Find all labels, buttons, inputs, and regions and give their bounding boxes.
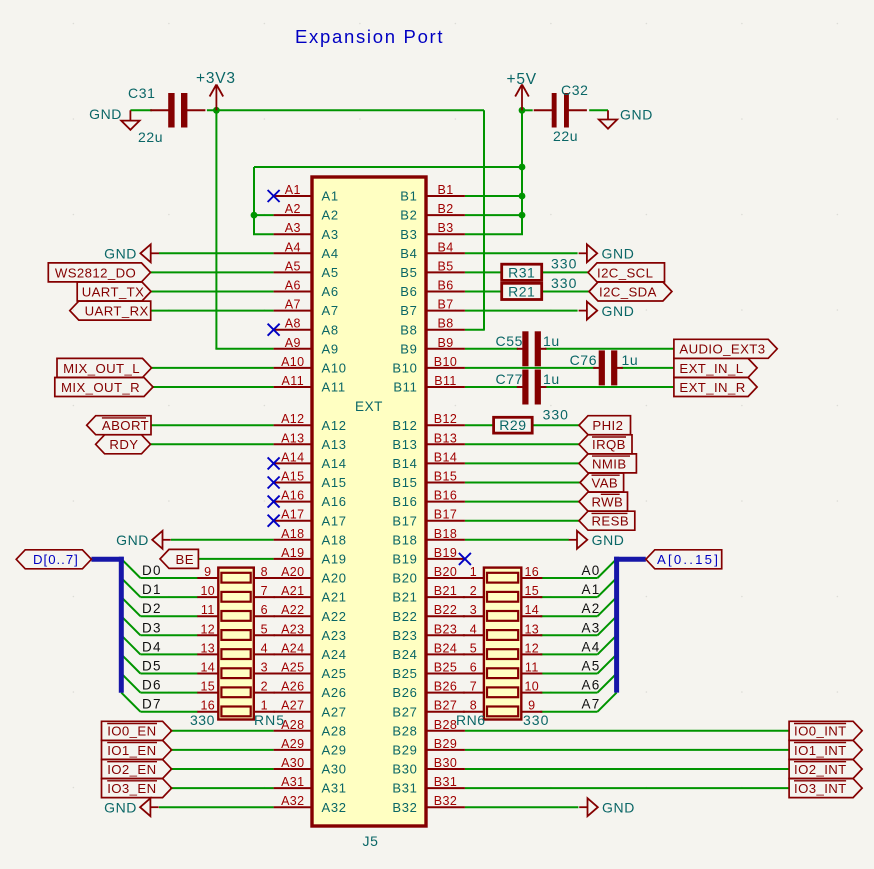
pin 4 [463,634,484,636]
wire R31 to I2C_SCL [542,271,589,273]
svg-text:A26: A26 [322,685,347,700]
svg-text:2: 2 [470,584,477,598]
resistor element 10/7 [221,592,250,602]
svg-text:D4: D4 [142,639,162,654]
svg-text:A29: A29 [281,737,304,751]
svg-text:GND: GND [104,799,137,815]
global label AUDIO_EXT3 [674,339,777,358]
global label IO2_INT [789,760,862,779]
wire B7 to GND [465,310,578,312]
pin B11 [393,374,465,395]
svg-text:1u: 1u [543,333,560,349]
resistor element 14/3 [221,668,250,678]
wire B9 to C55 [465,348,518,350]
pin A19 [274,546,347,567]
resistor element 5/12 [487,649,518,659]
svg-text:14: 14 [524,603,539,617]
wire B8 stub [465,329,485,331]
svg-text:B28: B28 [392,723,417,738]
wire A13 RDY [151,443,274,445]
svg-text:B14: B14 [434,450,457,464]
svg-text:A2: A2 [285,202,301,216]
pin 15 [521,596,542,598]
svg-text:15: 15 [200,680,215,694]
svg-text:1: 1 [470,565,477,579]
svg-text:15: 15 [524,584,539,598]
no-connect A14 [268,457,280,469]
svg-text:330: 330 [551,256,577,272]
wire +3V3 vertical drop to B8 [483,110,485,329]
global label IO2_EN [102,760,172,779]
global label ABORT [87,416,151,435]
svg-text:A1: A1 [285,183,301,197]
svg-text:A14: A14 [322,456,347,471]
bus entry D0 [121,559,140,578]
svg-text:IO3_INT: IO3_INT [794,781,847,796]
pin 9 [521,711,542,713]
svg-text:B11: B11 [393,380,417,395]
svg-text:B9: B9 [437,336,453,350]
svg-text:I2C_SCL: I2C_SCL [597,265,653,280]
svg-text:EXT: EXT [355,399,383,414]
resistor network RN6 [456,565,549,728]
resistor element 1/16 [487,573,518,583]
wire D7 to RN5 [140,711,197,713]
svg-text:A3: A3 [582,620,601,635]
no-connect A15 [268,477,280,489]
svg-text:A28: A28 [281,718,304,732]
pin B9 [400,336,465,357]
resistor element 9/8 [221,573,250,583]
wire B12 to R29 [465,424,494,426]
svg-text:GND: GND [89,106,122,122]
svg-text:A[0..15]: A[0..15] [657,552,720,567]
svg-text:B25: B25 [392,666,417,681]
no-connect A1 [268,190,280,202]
connector J5 (EXT) body [312,177,426,826]
svg-text:NMIB: NMIB [592,456,627,471]
pin B27 [392,699,465,720]
svg-text:A24: A24 [281,641,304,655]
svg-text:B16: B16 [392,494,417,509]
svg-text:A6: A6 [322,284,339,299]
svg-text:BE: BE [176,552,194,567]
svg-text:330: 330 [190,712,215,728]
resistor element 11/6 [221,611,250,621]
wire B32 to GND [465,806,579,808]
wire RN6 to A7 label [540,711,597,713]
pin A4 [274,240,339,261]
svg-text:B32: B32 [392,800,417,815]
svg-text:A4: A4 [285,240,301,254]
wire A11 MIX_OUT_R [153,386,274,388]
power symbol +3V3 [196,70,236,110]
wire A18 to GND [171,539,274,541]
global label RDY [96,435,151,454]
wire A32 to GND [159,806,274,808]
svg-text:11: 11 [525,661,539,675]
pin A30 [274,756,347,777]
wire GND to C31 [130,109,152,111]
svg-text:B31: B31 [392,781,417,796]
svg-text:B29: B29 [392,743,417,758]
resistor element 12/5 [221,630,250,640]
pin A18 [274,527,347,548]
global label MIX_OUT_L [57,358,152,377]
power symbol GND at A4 [104,244,159,262]
global label UART_TX [77,282,151,301]
svg-text:GND: GND [104,246,137,262]
pin A23 [274,622,347,643]
svg-text:A30: A30 [281,756,304,770]
bus entry D4 [121,635,140,654]
pin A32 [274,794,347,815]
pin B6 [400,279,465,300]
capacitor C31 [128,85,205,145]
wire A10 MIX_OUT_L [151,367,274,369]
wire B17 RESB [465,520,580,522]
svg-text:GND: GND [602,303,635,319]
svg-text:C32: C32 [561,82,588,98]
svg-text:B27: B27 [392,704,417,719]
wire A5 WS2812_DO [150,271,274,273]
wire A6 UART_TX [151,291,274,293]
wire B10 to C76 [465,367,596,369]
resistor network RN5 [190,565,285,728]
pin B22 [392,603,465,624]
svg-text:D[0..7]: D[0..7] [33,552,79,567]
pin B1 [400,183,465,204]
power symbol GND at B4 [579,244,635,262]
wire D3 to RN5 [140,634,197,636]
svg-text:A8: A8 [322,322,339,337]
svg-text:B21: B21 [392,590,417,605]
svg-text:+3V3: +3V3 [196,70,236,87]
bus entry A5 [598,654,617,673]
svg-text:A15: A15 [322,475,347,490]
global label PHI2 [579,416,631,435]
svg-text:B24: B24 [434,641,457,655]
svg-text:A7: A7 [322,303,339,318]
wire B29 to IO1_INT [465,749,789,751]
svg-text:A15: A15 [281,470,304,484]
pin 8 [254,577,275,579]
svg-text:B20: B20 [392,571,417,586]
junction node B2 [519,212,526,219]
svg-text:9: 9 [528,699,535,713]
global label MIX_OUT_R [55,378,153,397]
pin 7 [254,596,275,598]
pin 3 [254,673,275,675]
svg-text:RESB: RESB [592,514,630,529]
pin B8 [400,317,465,338]
pin A27 [274,699,347,720]
svg-text:B10: B10 [434,355,457,369]
svg-text:A10: A10 [281,355,304,369]
svg-text:A25: A25 [322,666,347,681]
resistor R31 [502,264,542,280]
resistor element 6/11 [487,668,518,678]
svg-text:B7: B7 [400,303,417,318]
svg-text:2: 2 [261,680,268,694]
pin 9 [197,577,218,579]
wire +3V3 vertical drop to A9 [215,110,217,348]
pin 11 [521,673,542,675]
svg-text:330: 330 [543,407,569,423]
svg-text:A6: A6 [285,279,301,293]
wire RN6 to A6 label [540,692,597,694]
wire D0 to RN5 [140,577,197,579]
svg-text:D6: D6 [142,678,162,693]
svg-text:A32: A32 [322,800,347,815]
wire IO1_EN to A29 [170,749,274,751]
wire R29 to PHI2 [532,424,579,426]
svg-text:A16: A16 [322,494,347,509]
svg-text:A8: A8 [285,317,301,331]
bus entry D2 [121,597,140,616]
svg-text:A22: A22 [322,609,347,624]
no-connect A16 [268,496,280,508]
wire B5 to R31 [465,271,502,273]
wire A2 [254,214,274,216]
bus entry D3 [121,616,140,635]
svg-text:22u: 22u [553,128,578,144]
pin A15 [274,470,347,491]
svg-text:C31: C31 [128,85,155,101]
svg-text:16: 16 [200,699,215,713]
svg-text:A11: A11 [282,374,305,388]
pin A7 [274,298,339,319]
pin 6 [254,615,275,617]
svg-text:B5: B5 [400,265,417,280]
pin A6 [274,279,339,300]
pin 16 [197,711,218,713]
pin A20 [274,565,347,586]
pin 12 [521,653,542,655]
global label A[0..15] (bus) [646,550,722,569]
svg-text:I2C_SDA: I2C_SDA [599,284,657,299]
capacitor C32 [534,82,589,144]
svg-text:14: 14 [200,661,215,675]
pin A26 [274,680,347,701]
pin 2 [254,692,275,694]
pin 12 [197,634,218,636]
svg-text:B4: B4 [400,246,417,261]
svg-text:A30: A30 [322,762,347,777]
svg-text:A28: A28 [322,723,347,738]
svg-text:B10: B10 [392,361,417,376]
global label RWB [579,492,628,511]
wire B15 VAB [465,482,580,484]
wire A9 horizontal [215,348,273,350]
svg-text:B12: B12 [392,418,417,433]
svg-text:IO3_EN: IO3_EN [107,781,156,796]
bus entry A7 [598,693,617,712]
bus A[0..15] horizontal [614,557,646,562]
capacitor C55 [496,331,560,366]
wire A4 to GND [159,252,274,254]
svg-text:B19: B19 [434,546,457,560]
pin 6 [463,673,484,675]
wire B30 to IO2_INT [465,768,789,770]
svg-text:1u: 1u [622,352,639,368]
pin B5 [400,259,465,280]
svg-text:1u: 1u [543,371,560,387]
global label WS2812_DO [48,263,150,282]
power symbol GND (top right) [599,107,653,129]
svg-text:4: 4 [261,641,268,655]
wire B18 to GND [465,539,569,541]
wire B1 [465,195,522,197]
no-connect A17 [268,515,280,527]
svg-text:A5: A5 [285,259,301,273]
svg-text:B18: B18 [434,527,457,541]
pin A28 [274,718,347,739]
power symbol GND (top left) [89,106,140,130]
wire B31 to IO3_INT [465,787,789,789]
resistor element 15/2 [221,687,250,697]
wire +5V horizontal feed to A-side [254,166,522,168]
svg-text:MIX_OUT_R: MIX_OUT_R [61,380,140,395]
global label IO1_EN [102,740,172,759]
svg-text:9: 9 [204,565,211,579]
svg-text:330: 330 [551,275,577,291]
bus entry D5 [121,654,140,673]
junction node A2 [251,212,258,219]
svg-text:A14: A14 [281,450,304,464]
svg-text:A10: A10 [322,361,347,376]
svg-text:D5: D5 [142,659,162,674]
svg-text:D2: D2 [142,601,162,616]
svg-text:B15: B15 [392,475,417,490]
global label D[0..7] (bus) [16,550,91,569]
svg-text:B8: B8 [400,322,417,337]
pin A24 [274,641,347,662]
wire D6 to RN5 [140,692,197,694]
svg-text:B32: B32 [434,794,457,808]
svg-text:B7: B7 [437,298,453,312]
power symbol GND at A18 [116,531,171,549]
svg-text:A27: A27 [322,704,347,719]
global label IO3_INT [789,779,862,798]
wire D2 to RN5 [140,615,197,617]
svg-text:B26: B26 [392,685,417,700]
svg-text:VAB: VAB [592,475,619,490]
svg-text:A13: A13 [322,437,347,452]
power symbol GND at B32 [579,798,635,816]
svg-text:7: 7 [470,680,477,694]
wire B14 NMIB [465,462,580,464]
svg-text:R31: R31 [508,264,535,280]
pin 16 [521,577,542,579]
svg-text:B27: B27 [434,699,457,713]
svg-text:IO1_INT: IO1_INT [794,743,847,758]
global label IO3_EN [102,779,172,798]
svg-text:11: 11 [201,603,215,617]
pin B30 [392,756,465,777]
no-connect B19 [459,553,471,565]
svg-text:1: 1 [261,699,268,713]
capacitor C77 [496,370,560,405]
svg-text:GND: GND [620,107,653,123]
svg-text:A12: A12 [281,412,304,426]
pin B26 [392,680,465,701]
svg-text:PHI2: PHI2 [592,418,623,433]
global label EXT_IN_R [674,378,757,397]
resistor R29 [494,417,533,433]
pin 5 [254,634,275,636]
svg-text:A3: A3 [285,221,301,235]
pin A2 [274,202,339,223]
global label BE [160,549,198,568]
svg-text:B9: B9 [400,341,417,356]
svg-text:A2: A2 [322,208,339,223]
svg-text:B23: B23 [434,622,457,636]
wire C32 to GND [589,109,608,111]
svg-text:B22: B22 [434,603,457,617]
bus entry D6 [121,674,140,693]
wire B11 to C77 [465,386,518,388]
svg-text:12: 12 [200,622,215,636]
svg-text:A26: A26 [281,680,304,694]
pin B19 [392,546,465,567]
junction +5V node [519,107,526,114]
svg-text:EXT_IN_L: EXT_IN_L [679,361,743,376]
wire IO0_EN to A28 [170,730,274,732]
svg-text:B30: B30 [434,756,457,770]
svg-text:GND: GND [602,799,635,815]
svg-text:16: 16 [524,565,539,579]
svg-text:A16: A16 [281,489,304,503]
global label IRQB [579,435,632,454]
wire C76 to EXT_IN_L [622,367,674,369]
svg-text:10: 10 [200,584,215,598]
pin 10 [197,596,218,598]
bus D[0..7] vertical [119,557,124,693]
bus entry D1 [121,578,140,597]
pin A1 [274,183,339,204]
svg-text:A4: A4 [582,639,601,654]
bus entry A1 [598,578,617,597]
svg-text:B3: B3 [437,221,453,235]
svg-text:3: 3 [470,603,477,617]
svg-text:3: 3 [261,661,268,675]
svg-text:B13: B13 [392,437,417,452]
svg-text:B22: B22 [392,609,417,624]
pin B3 [400,221,465,242]
svg-text:A4: A4 [322,246,339,261]
svg-text:B15: B15 [434,470,457,484]
pin 14 [521,615,542,617]
pin A12 [274,412,347,433]
wire RN6 to A0 label [540,577,597,579]
pin 10 [521,692,542,694]
pin B2 [400,202,465,223]
svg-text:MIX_OUT_L: MIX_OUT_L [63,361,140,376]
pin 14 [197,673,218,675]
pin A13 [274,431,347,452]
resistor R21 [502,283,542,299]
pin A22 [274,603,347,624]
pin 8 [463,711,484,713]
svg-text:B2: B2 [400,208,417,223]
svg-text:ABORT: ABORT [102,418,149,433]
svg-text:A20: A20 [322,571,347,586]
bus A[0..15] vertical [614,557,619,693]
svg-text:8: 8 [470,699,477,713]
power symbol +5V [507,71,537,110]
svg-text:AUDIO_EXT3: AUDIO_EXT3 [679,342,765,357]
